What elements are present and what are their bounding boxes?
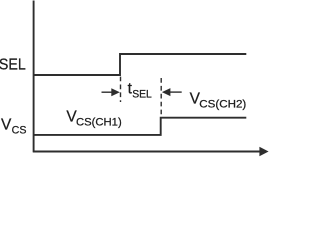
time axis (horizontal arrow line)	[33, 151, 261, 153]
dashed line at SEL rising edge	[120, 77, 122, 102]
svg-text:CS(CH1): CS(CH1)	[76, 117, 122, 129]
svg-text:CS(CH2): CS(CH2)	[199, 99, 246, 111]
dashed line at VCS rising edge	[160, 78, 162, 117]
left-pointing arrow of t_SEL measure	[162, 88, 182, 96]
svg-text:SEL: SEL	[0, 57, 26, 74]
label VCS(CH2) (V with CS(CH2) subscript)	[190, 90, 247, 110]
label VCS (signal name, V with CS subscript)	[1, 117, 27, 137]
right-pointing arrow of t_SEL measure	[102, 88, 120, 96]
svg-text:CS: CS	[12, 124, 27, 136]
vertical axis (voltage axis)	[33, 1, 35, 153]
wire VCS waveform (low, rising edge, high)	[34, 118, 246, 135]
label VCS(CH1) (V with CS(CH1) subscript)	[66, 108, 121, 128]
svg-text:V: V	[1, 117, 12, 134]
svg-text:SEL: SEL	[132, 89, 152, 101]
wire SEL waveform (low, rising edge, high)	[34, 54, 246, 75]
time axis arrowhead	[259, 147, 268, 156]
label tSEL (timing parameter, t with SEL subscript)	[128, 80, 152, 100]
